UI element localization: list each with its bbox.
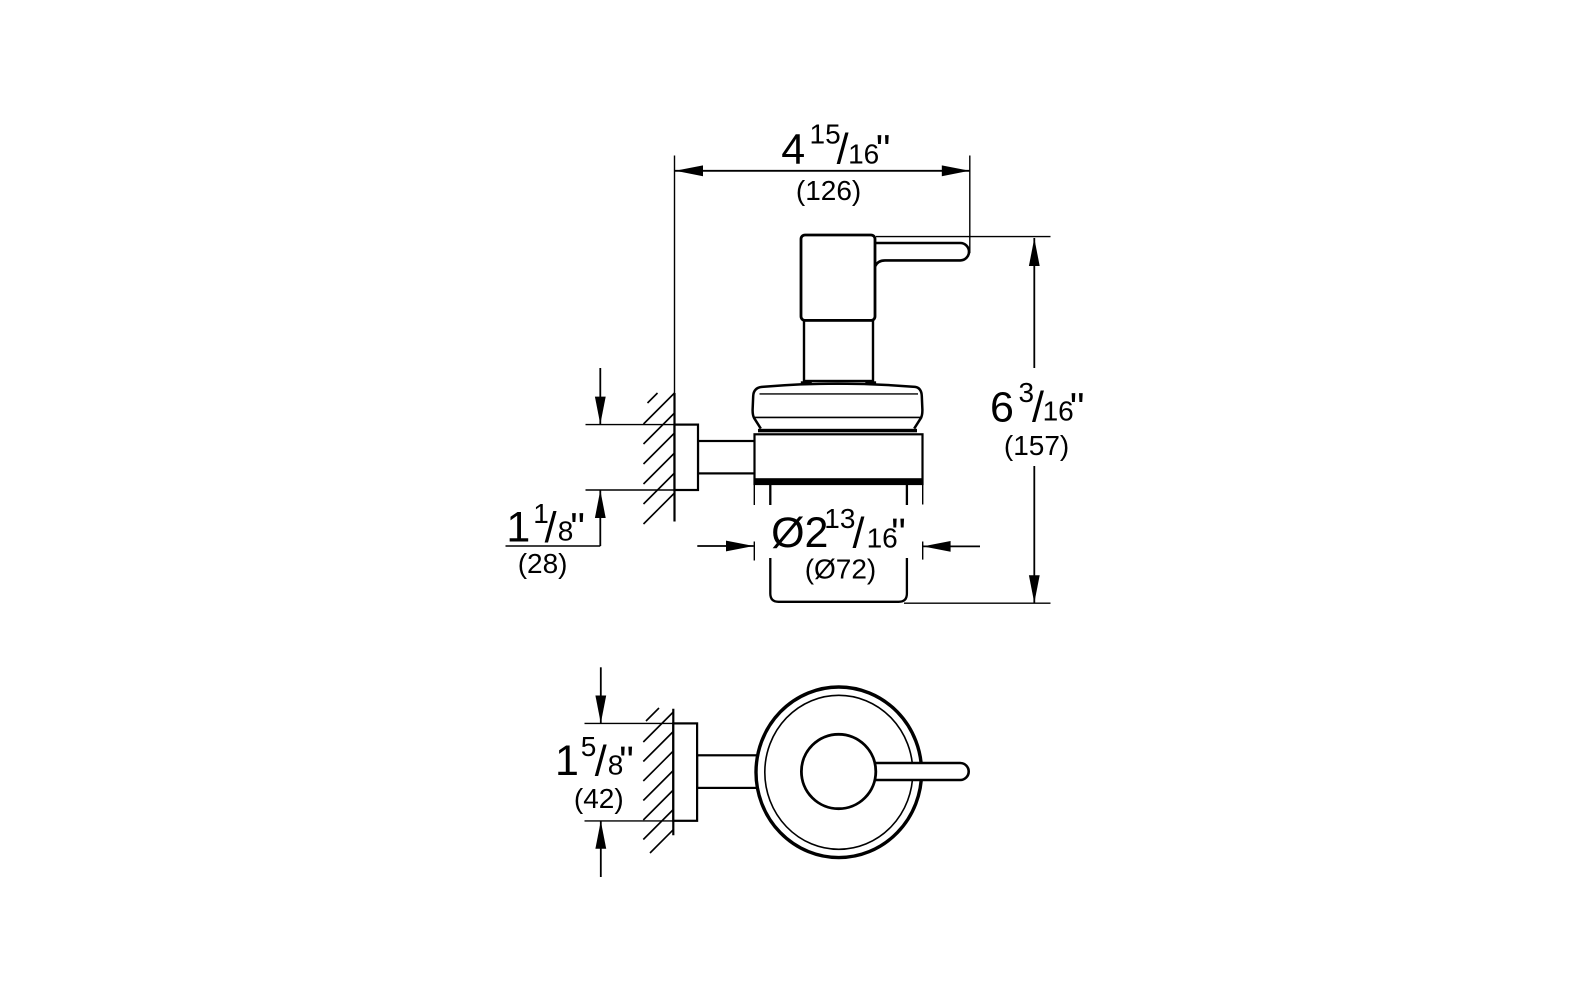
dimension: plate thickness 1 1/8" (28): [586, 424, 676, 426]
wall face line (bottom view): [672, 709, 674, 836]
svg-text:Ø2: Ø2: [771, 509, 828, 557]
dimension: bottom view width 1 5/8" (42): [585, 722, 675, 724]
arrowhead top of height dimension: [1029, 238, 1040, 266]
wall hatching (side view): [644, 393, 675, 524]
arm (bottom view): [697, 755, 759, 788]
rubber seal band: [758, 429, 917, 433]
svg-text:16: 16: [848, 138, 879, 169]
svg-text:(126): (126): [796, 175, 861, 206]
wall face line (side view): [674, 156, 676, 401]
pump lever (bottom view): [865, 763, 969, 780]
svg-text:1: 1: [555, 737, 579, 785]
arm between plate and holder (side view): [698, 441, 755, 473]
svg-text:/: /: [853, 510, 865, 558]
svg-text:(28): (28): [518, 548, 568, 579]
svg-text:13: 13: [824, 503, 855, 534]
svg-text:/: /: [595, 738, 607, 786]
holder ring inner circle: [765, 695, 913, 849]
svg-text:(157): (157): [1004, 430, 1069, 461]
holder ring band (side view): [755, 434, 923, 484]
arrowhead right of width dimension: [942, 165, 970, 176]
svg-text:": ": [570, 505, 585, 551]
svg-text:4: 4: [781, 125, 805, 173]
svg-text:": ": [619, 738, 634, 784]
svg-text:6: 6: [990, 383, 1014, 431]
dimension: height 6 3/16" (157): [876, 236, 1051, 238]
arrowhead bottom of height dimension: [1029, 575, 1040, 603]
dimension: glass diameter Ø2 13/16" (Ø72): [754, 484, 922, 561]
svg-text:1: 1: [506, 504, 530, 552]
glass cap / dispenser shoulder: [753, 384, 923, 429]
arrowhead left of width dimension: [675, 165, 703, 176]
dimension: top width 4 15/16" (126): [969, 156, 971, 254]
wall hatching (bottom view): [643, 708, 673, 853]
svg-text:(42): (42): [574, 783, 624, 814]
svg-text:": ": [891, 510, 906, 556]
svg-text:/: /: [837, 126, 849, 174]
pump circle (bottom view): [801, 734, 875, 808]
svg-text:": ": [1070, 384, 1085, 430]
holder bottom thick edge: [755, 478, 923, 484]
svg-text:(Ø72): (Ø72): [805, 554, 877, 585]
glass container (side view): [770, 484, 907, 602]
svg-text:/: /: [545, 504, 557, 552]
pump neck collar: [804, 320, 873, 381]
mounting plate (bottom view): [673, 723, 697, 820]
mounting plate (side view): [675, 425, 699, 490]
svg-text:": ": [876, 126, 891, 172]
pump lever (side view): [875, 243, 969, 267]
pump body (side view): [801, 235, 875, 320]
holder ring outer circle (bottom view): [756, 687, 922, 858]
